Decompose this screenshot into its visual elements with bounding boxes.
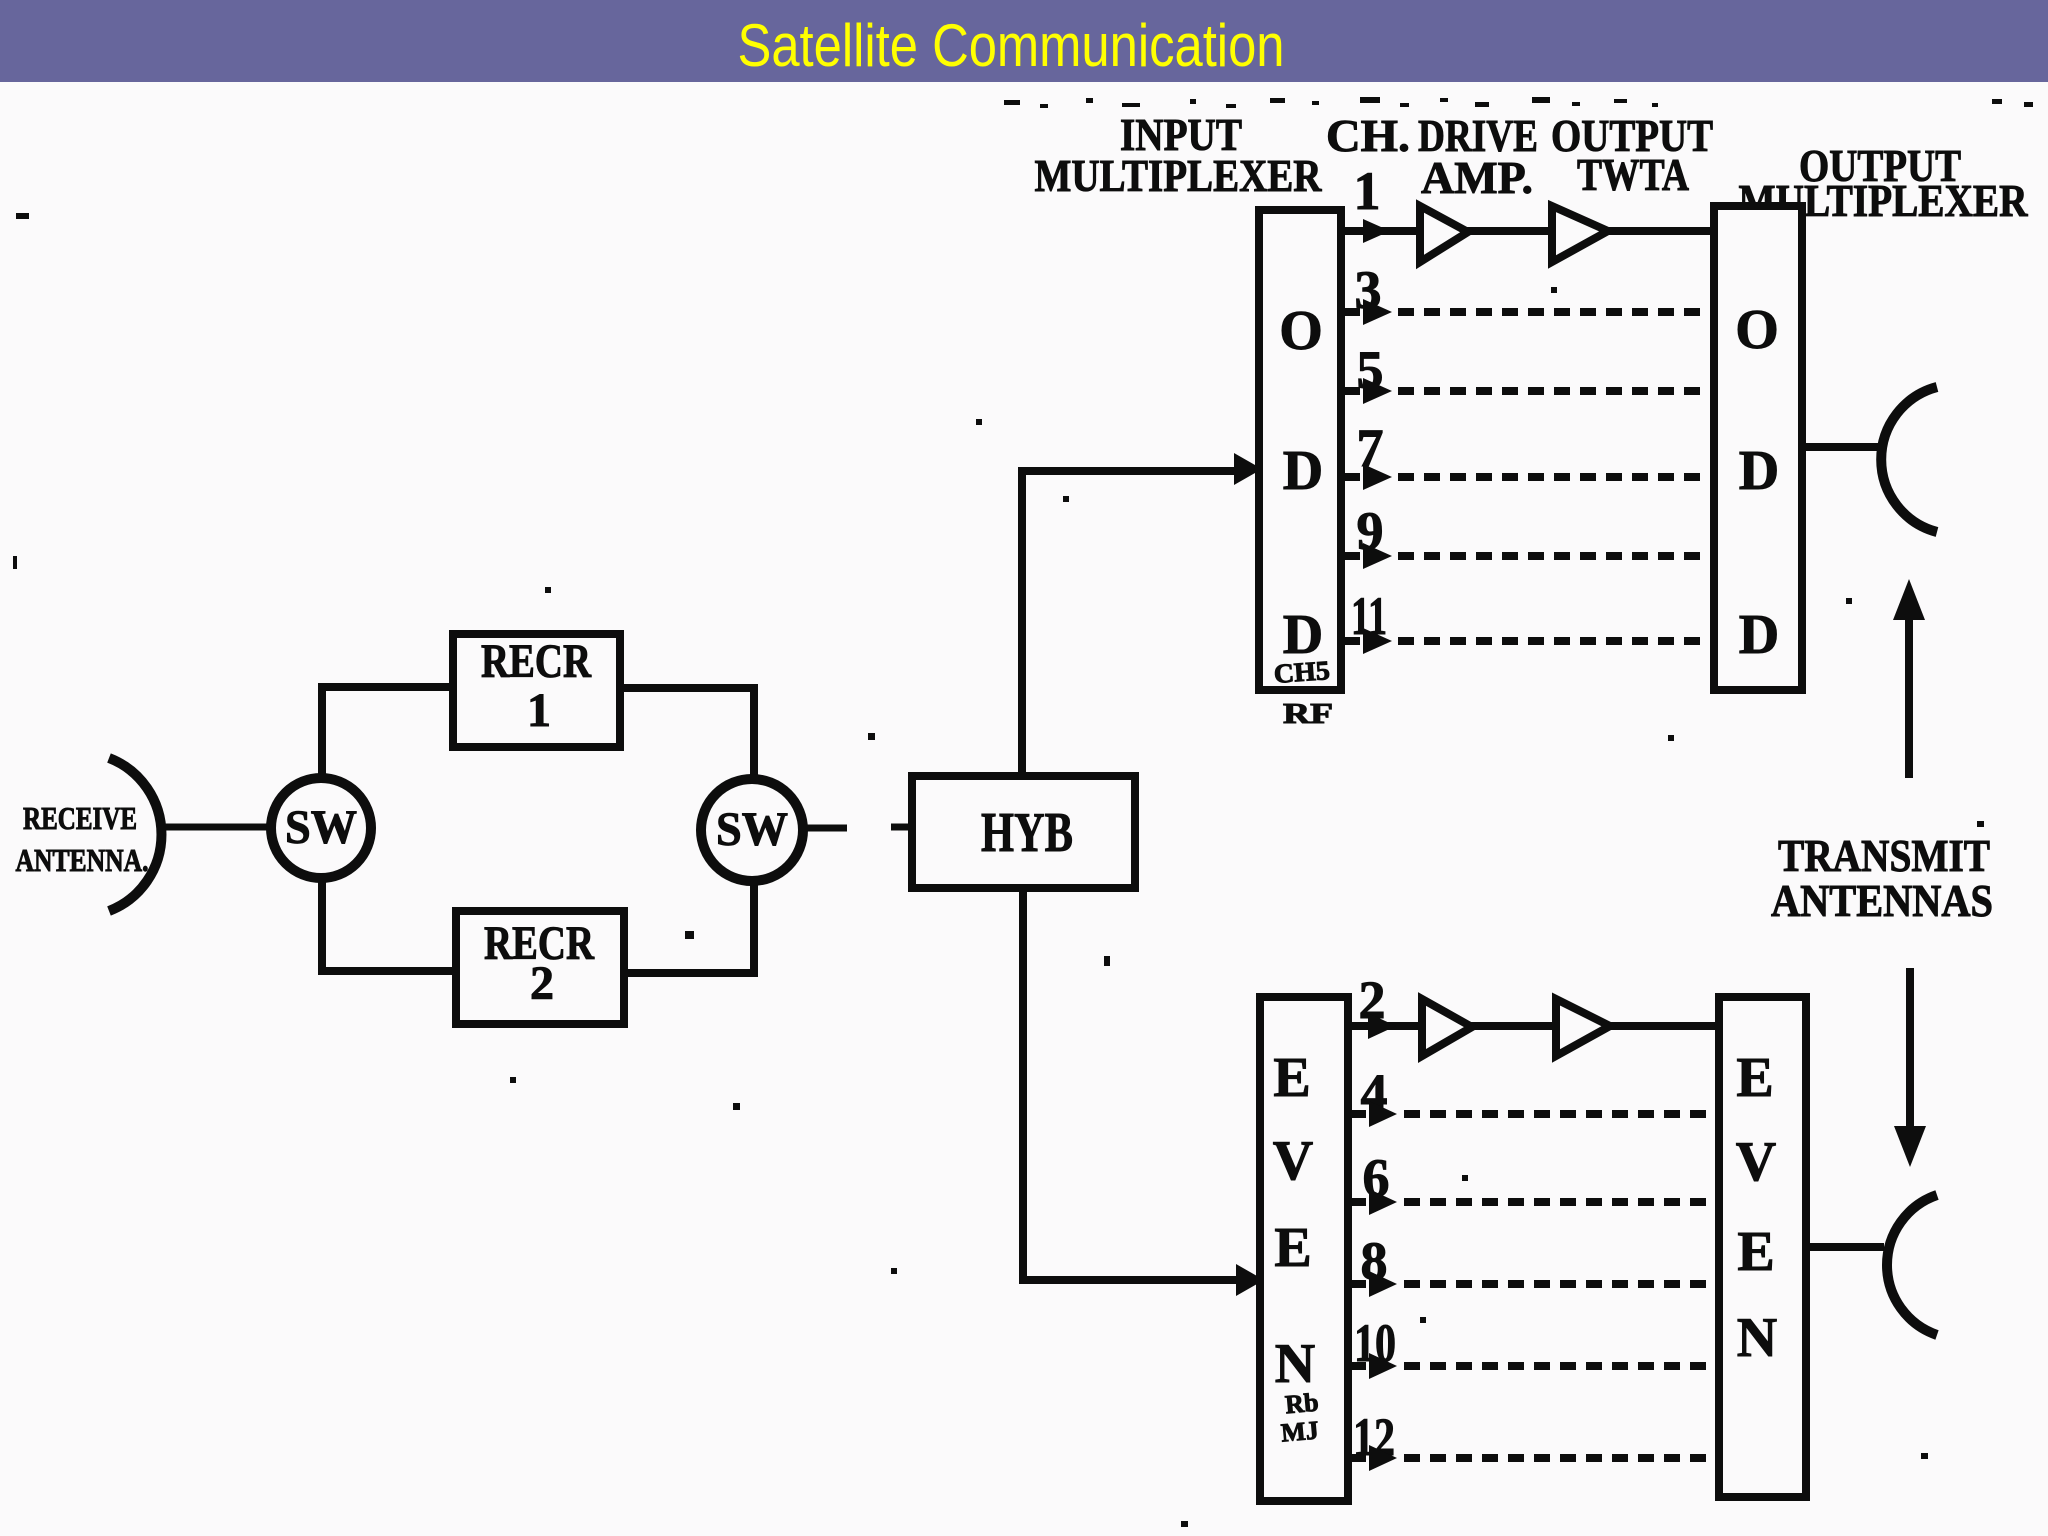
channel 6 dashed line bbox=[1404, 1198, 1734, 1206]
output TWTA A2 bbox=[1552, 206, 1608, 262]
channel 12 arrowhead bbox=[1369, 1445, 1397, 1471]
channel 12 dashed line bbox=[1404, 1454, 1734, 1462]
svg-text:CH.: CH. bbox=[1326, 110, 1410, 161]
up arrow bbox=[1893, 579, 1925, 778]
svg-text:E: E bbox=[1736, 1047, 1773, 1109]
even input multiplexer box bbox=[1260, 997, 1348, 1501]
channel 6 arrowhead bbox=[1369, 1189, 1397, 1215]
receiver RECR1 bbox=[453, 634, 620, 747]
channel 7 dashed line bbox=[1398, 473, 1730, 481]
svg-text:N: N bbox=[1737, 1307, 1777, 1369]
channel 7 arrowhead bbox=[1363, 464, 1392, 490]
label OUTPUT MULTIPLEXER bbox=[1739, 140, 2029, 226]
channel 10 dashed line bbox=[1404, 1362, 1734, 1370]
svg-text:TRANSMIT: TRANSMIT bbox=[1778, 830, 1990, 881]
channel 5 arrowhead bbox=[1363, 378, 1392, 404]
channel 3 dashed line bbox=[1398, 308, 1730, 316]
channel 2 arrowhead bbox=[1368, 1013, 1396, 1039]
channel 4 stub bbox=[1348, 1110, 1366, 1118]
output TWTA A4 bbox=[1556, 999, 1610, 1056]
label CH. DRIVE OUTPUT row bbox=[1326, 110, 1713, 161]
channel 12 stub bbox=[1348, 1454, 1366, 1462]
channel 2 line bbox=[1348, 1022, 1719, 1030]
wire RECR1 to SW2 bbox=[620, 688, 754, 777]
odd transmit antenna bbox=[1881, 387, 1937, 532]
even transmit antenna bbox=[1887, 1195, 1937, 1335]
channel 4 arrowhead bbox=[1369, 1101, 1397, 1127]
wire even output mux to antenna bbox=[1806, 1243, 1884, 1251]
svg-text:V: V bbox=[1736, 1131, 1776, 1193]
svg-text:D: D bbox=[1739, 604, 1779, 666]
wire HYB to odd input multiplexer bbox=[1022, 471, 1236, 776]
channel 9 arrowhead bbox=[1363, 543, 1392, 569]
svg-text:MJ: MJ bbox=[1280, 1415, 1320, 1447]
svg-text:SW: SW bbox=[716, 803, 788, 856]
label RECEIVE ANTENNA bbox=[16, 800, 149, 878]
svg-text:O: O bbox=[1735, 299, 1779, 361]
channel 1 arrowhead bbox=[1363, 219, 1390, 243]
svg-text:Rb: Rb bbox=[1284, 1388, 1320, 1420]
svg-text:1: 1 bbox=[1354, 161, 1381, 221]
channel 11 arrowhead bbox=[1363, 628, 1392, 654]
label TRANSMIT ANTENNAS bbox=[1771, 830, 1993, 926]
scan noise top bbox=[13, 97, 2033, 569]
svg-text:RF: RF bbox=[1283, 699, 1333, 730]
channel 11 dashed line bbox=[1398, 637, 1730, 645]
channel 8 dashed line bbox=[1404, 1280, 1734, 1288]
channel 9 stub bbox=[1341, 552, 1360, 560]
svg-text:HYB: HYB bbox=[981, 802, 1073, 864]
channel 8 arrowhead bbox=[1369, 1271, 1397, 1297]
receive antenna bbox=[109, 758, 161, 911]
channel 8 stub bbox=[1348, 1280, 1366, 1288]
channel 10 stub bbox=[1348, 1362, 1366, 1370]
svg-text:2: 2 bbox=[530, 957, 554, 1010]
svg-text:E: E bbox=[1737, 1221, 1774, 1283]
svg-text:TWTA: TWTA bbox=[1577, 149, 1689, 200]
channel 10 arrowhead bbox=[1369, 1353, 1397, 1379]
svg-text:O: O bbox=[1279, 300, 1323, 362]
odd output multiplexer box bbox=[1714, 206, 1802, 690]
channel 3 arrowhead bbox=[1363, 299, 1392, 325]
wire odd output mux to antenna bbox=[1802, 443, 1884, 451]
channel 7 stub bbox=[1341, 473, 1360, 481]
receiver RECR2 bbox=[456, 911, 624, 1024]
channel 11 stub bbox=[1341, 637, 1360, 645]
svg-text:ANTENNAS: ANTENNAS bbox=[1771, 875, 1993, 926]
channel 6 stub bbox=[1348, 1198, 1366, 1206]
scan noise specks bbox=[510, 287, 1984, 1527]
wire RECR2 to SW2 bbox=[624, 884, 754, 973]
svg-text:E: E bbox=[1273, 1047, 1310, 1109]
svg-text:N: N bbox=[1275, 1333, 1315, 1395]
svg-text:CH5: CH5 bbox=[1273, 655, 1331, 689]
wire SW2 to HYB bbox=[806, 827, 913, 828]
odd input multiplexer box bbox=[1259, 210, 1341, 690]
svg-text:1: 1 bbox=[527, 684, 551, 737]
hybrid HYB bbox=[912, 776, 1135, 888]
channel 9 dashed line bbox=[1398, 552, 1730, 560]
wire SW1 to RECR1 bbox=[322, 687, 455, 776]
label AMP. TWTA row bbox=[1421, 149, 1689, 203]
drive amp A3 bbox=[1422, 999, 1472, 1056]
channel 5 stub bbox=[1341, 387, 1360, 395]
svg-text:D: D bbox=[1283, 440, 1323, 502]
svg-text:Satellite Communication: Satellite Communication bbox=[738, 12, 1285, 79]
drive amp A1 bbox=[1420, 206, 1468, 262]
channel 4 dashed line bbox=[1404, 1110, 1734, 1118]
svg-text:AMP.: AMP. bbox=[1421, 152, 1533, 203]
even output multiplexer box bbox=[1719, 997, 1806, 1497]
down arrow bbox=[1894, 968, 1926, 1167]
switch SW2 bbox=[701, 779, 803, 881]
svg-text:RECEIVE: RECEIVE bbox=[23, 800, 137, 836]
svg-text:SW: SW bbox=[285, 801, 357, 854]
wire HYB to even input multiplexer bbox=[1023, 888, 1238, 1280]
header bar bbox=[0, 0, 2048, 82]
svg-text:V: V bbox=[1273, 1130, 1313, 1192]
switch SW1 bbox=[271, 778, 371, 878]
svg-text:MULTIPLEXER: MULTIPLEXER bbox=[1035, 150, 1323, 201]
arrowhead into odd input mux bbox=[1234, 453, 1262, 485]
channel 3 stub bbox=[1341, 308, 1360, 316]
channel 5 dashed line bbox=[1398, 387, 1730, 395]
channel 1 line bbox=[1341, 227, 1715, 235]
wire SW1 to RECR2 bbox=[322, 880, 458, 971]
svg-text:E: E bbox=[1274, 1217, 1311, 1279]
label INPUT MULTIPLEXER bbox=[1035, 109, 1323, 201]
svg-text:ANTENNA.: ANTENNA. bbox=[16, 842, 149, 878]
svg-text:D: D bbox=[1739, 440, 1779, 502]
arrowhead into even input mux bbox=[1236, 1264, 1264, 1296]
wire antenna to SW1 bbox=[158, 824, 269, 831]
svg-text:RECR: RECR bbox=[481, 635, 592, 688]
